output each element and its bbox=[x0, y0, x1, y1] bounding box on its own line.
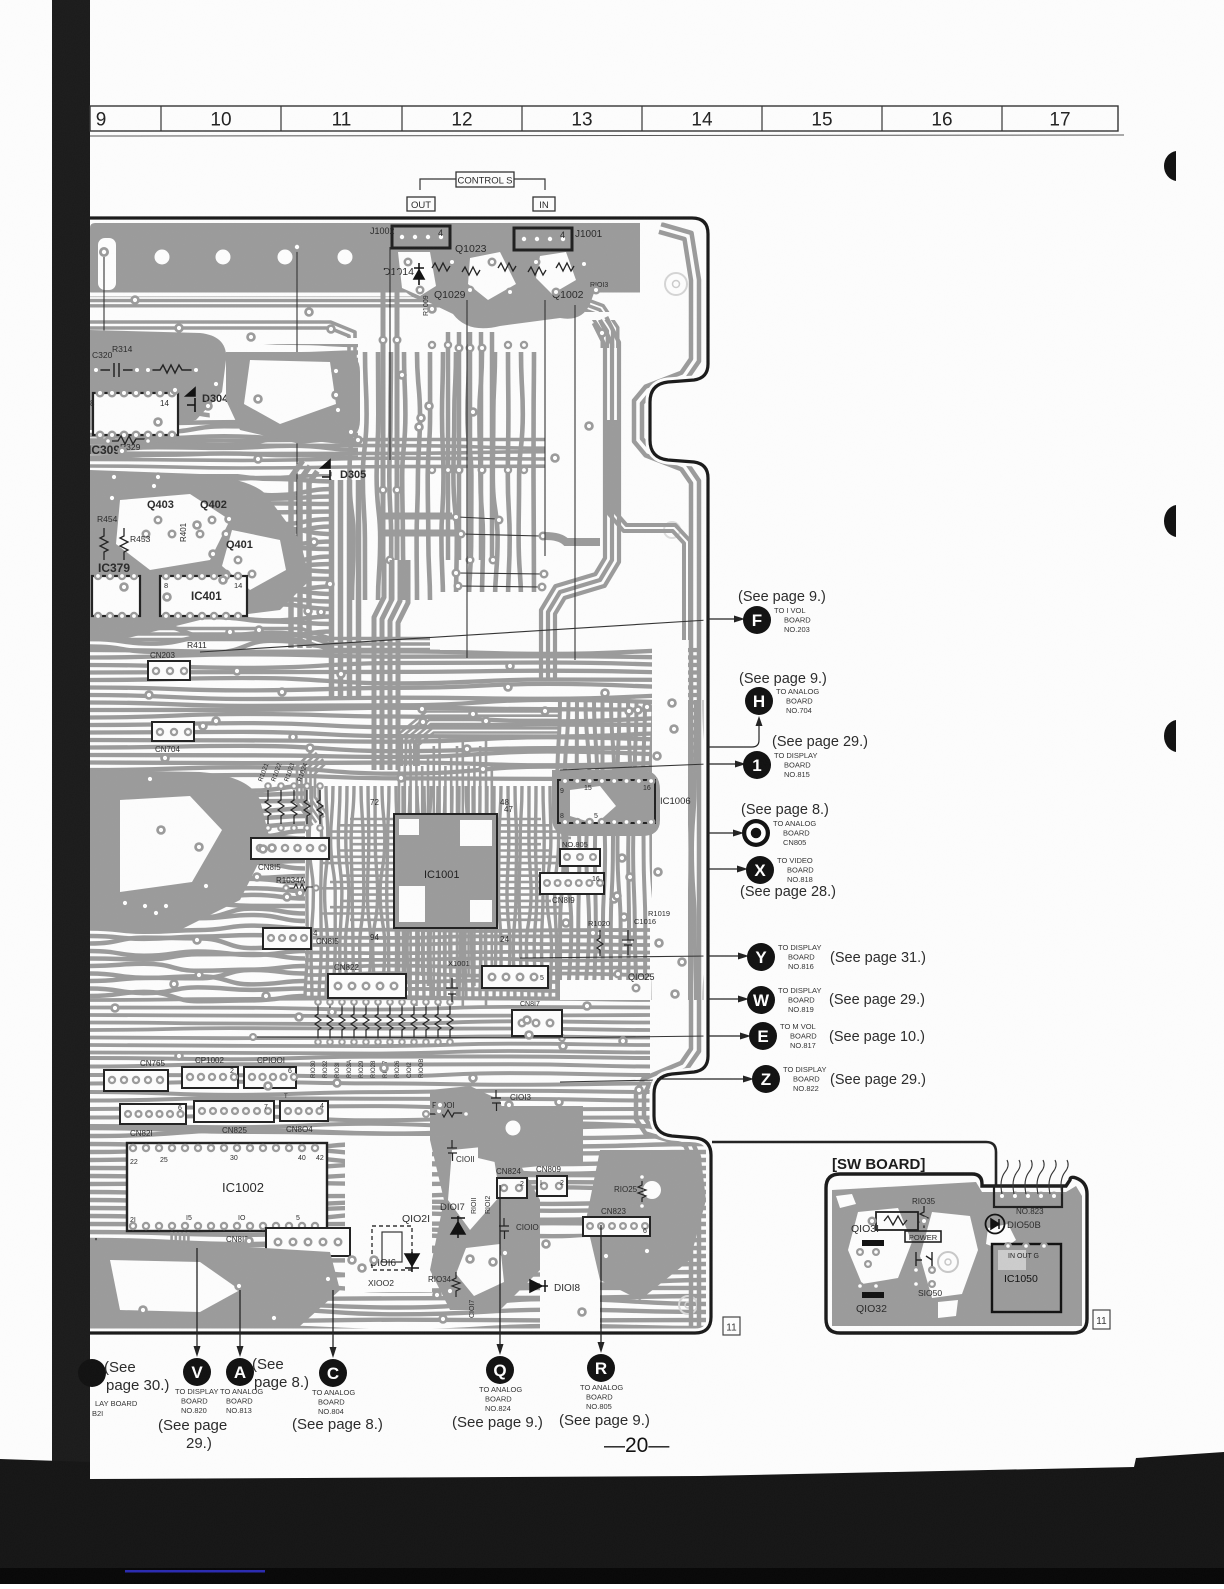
white lake bottom mid bbox=[345, 1136, 432, 1292]
white gap below band bbox=[90, 312, 640, 320]
vertical bus right of cluster bbox=[555, 317, 619, 680]
sheet mark 11 right bbox=[1093, 1310, 1110, 1329]
IC401 bbox=[160, 576, 247, 616]
bus under top band 2 bbox=[90, 322, 355, 420]
CN804 connector bbox=[280, 1101, 328, 1121]
connector callout F bbox=[743, 606, 771, 634]
trace stub right mid bbox=[545, 536, 600, 542]
white lake right margin bbox=[652, 470, 688, 1050]
blue scan artifact line bbox=[125, 1570, 265, 1573]
wire across to Y bbox=[520, 956, 708, 958]
CN203 connector bbox=[148, 661, 190, 680]
L trace to edge mid bbox=[615, 420, 690, 640]
IC1001 left connector CN815 bbox=[251, 838, 329, 859]
CN817 connector bbox=[512, 1010, 562, 1036]
diode D1050B bbox=[986, 1215, 1005, 1234]
trace stubs with jumper wires bbox=[380, 513, 452, 520]
bus under top band bbox=[90, 290, 618, 420]
wire across to 1 bbox=[560, 764, 708, 770]
wire across to F bbox=[200, 620, 708, 652]
CN824 connector bbox=[497, 1178, 527, 1198]
vertical traces top mid bbox=[395, 270, 400, 560]
left fan bundle bbox=[297, 750, 314, 826]
copper carpet Q4 region bbox=[90, 474, 332, 479]
diode D305 bbox=[321, 460, 330, 484]
diode D304 bbox=[186, 388, 195, 412]
scattered pads field bbox=[353, 435, 363, 445]
CP1002 connector bbox=[182, 1067, 238, 1088]
white lake below cluster bbox=[540, 560, 600, 648]
scan noise overlay bbox=[0, 0, 1, 1]
connector callout O bbox=[742, 819, 770, 847]
white lake mid1 bbox=[120, 794, 222, 892]
right edge vertical traces bbox=[642, 224, 699, 1330]
binding mark 2 bbox=[1164, 505, 1176, 537]
center bottom copper 2 bbox=[586, 1150, 706, 1300]
IC1050 bbox=[992, 1244, 1061, 1312]
white lake right r1 bbox=[560, 980, 650, 1000]
CN822 connector bbox=[328, 974, 406, 998]
cluster small symbols bbox=[432, 263, 450, 271]
wire row 1037 bbox=[255, 1037, 560, 1038]
binding mark 3 bbox=[1164, 720, 1176, 752]
cluster white gaps bbox=[398, 252, 436, 296]
connector J1002 bbox=[392, 226, 450, 248]
IC1001 pin fans bbox=[398, 766, 401, 813]
white lake mid2 bbox=[440, 592, 560, 650]
IC1006 outline bbox=[558, 780, 655, 823]
center bottom copper bbox=[430, 1086, 540, 1310]
RIOOI copper slab bbox=[478, 1106, 583, 1168]
center vertical bus 2 bbox=[374, 560, 384, 770]
connector callout C bbox=[332, 1290, 334, 1350]
copper carpet IC1001 halo bbox=[305, 786, 308, 1000]
vertical drop pads bbox=[455, 344, 464, 353]
binding mark 1 bbox=[1164, 151, 1176, 181]
CN765 connector bbox=[104, 1070, 168, 1091]
white lake top right large bbox=[545, 348, 700, 560]
connector callout R bbox=[600, 1225, 602, 1345]
R1036 box bbox=[876, 1212, 918, 1230]
wire main board to SW board bbox=[712, 1142, 996, 1186]
white lake q4b bbox=[222, 528, 288, 592]
CN813 connector bbox=[266, 1228, 350, 1256]
screw hole top right bbox=[665, 273, 687, 295]
connector callout X bbox=[746, 856, 774, 884]
connector callout Y bbox=[747, 943, 775, 971]
connector callout 1 bbox=[743, 751, 771, 779]
band bottom separator bbox=[90, 293, 640, 297]
CN819 connector bbox=[540, 873, 604, 894]
CN704 connector bbox=[152, 722, 194, 741]
jumper wire 3 bbox=[574, 305, 576, 660]
white lake left1 bbox=[206, 354, 292, 420]
connector callout E bbox=[749, 1022, 777, 1050]
white gap row470 bbox=[90, 470, 330, 474]
copper carpet mid band bbox=[90, 650, 700, 654]
white lake bottom right bbox=[540, 1236, 600, 1330]
bus above CN203 bbox=[90, 629, 430, 639]
board edge white margin bbox=[90, 218, 711, 1333]
IC309 outline bbox=[93, 393, 178, 435]
copper carpet row440 bbox=[90, 440, 700, 441]
copper carpet left mid bbox=[90, 340, 358, 346]
vertical bus from connectors to mid bbox=[490, 332, 495, 560]
CN821 connector bbox=[120, 1104, 186, 1124]
switch S1050 bbox=[916, 1252, 932, 1268]
connector callout W bbox=[747, 986, 775, 1014]
SW board copper bbox=[832, 1182, 1082, 1326]
CN815 connector 2 bbox=[263, 928, 311, 949]
top copper band bbox=[90, 223, 640, 296]
connector callout H bbox=[745, 687, 773, 715]
IC1001 body bbox=[394, 814, 497, 928]
main PCB board outline bbox=[90, 218, 711, 1333]
IC1006 region copper bbox=[552, 770, 660, 836]
bottom left copper fill bbox=[90, 1240, 340, 1326]
resistor column row bbox=[315, 1004, 321, 1040]
jumper wire 2 bbox=[544, 300, 546, 556]
CN809 connector bbox=[537, 1176, 567, 1196]
mid blob right of IC309 bbox=[226, 352, 360, 444]
CN823 connector bbox=[583, 1217, 650, 1236]
page gutter black strip bbox=[52, 0, 90, 1584]
IC1001 top fan bus bbox=[398, 712, 561, 767]
connector J1001 bbox=[514, 228, 572, 250]
copper carpet bottom bbox=[90, 1123, 706, 1133]
connector mid CN8x bbox=[482, 966, 548, 988]
wire across to Z bbox=[560, 1079, 710, 1082]
bottom black scan area bbox=[0, 1452, 1224, 1584]
left blob Q4xx bbox=[90, 470, 310, 640]
connector callout A bbox=[239, 1290, 241, 1349]
blob mid left bbox=[90, 770, 270, 930]
screw hole bottom bbox=[679, 1296, 697, 1314]
copper carpet row1060 bbox=[90, 1057, 650, 1060]
SW board outline bbox=[826, 1174, 1087, 1333]
wire across to E bbox=[540, 1036, 708, 1038]
CONTROL S label bbox=[456, 172, 514, 187]
board outline stroke bbox=[90, 218, 711, 1333]
band mount holes bbox=[155, 250, 170, 265]
copper carpet lower band bbox=[90, 998, 650, 1000]
IN label bbox=[533, 197, 555, 211]
sheet mark 11 left bbox=[723, 1317, 740, 1335]
clipped callout left bbox=[78, 1359, 106, 1387]
SW board white lakes bbox=[848, 1208, 912, 1284]
pad drop wires bbox=[103, 257, 105, 340]
jumper wire 4 bbox=[389, 247, 391, 460]
resistor ladder R10xx top bbox=[265, 790, 271, 824]
NO.805 connector bbox=[560, 849, 600, 866]
connector wires into NO.823 bbox=[1001, 1160, 1008, 1194]
POWER label bbox=[905, 1231, 941, 1242]
connector callout V bbox=[196, 1248, 198, 1349]
connector callout Z bbox=[752, 1065, 780, 1093]
CP1001 connector bbox=[244, 1067, 296, 1088]
X1002 crystal dashed bbox=[372, 1226, 412, 1270]
connector NO.823 bbox=[994, 1186, 1062, 1207]
connector callout Q bbox=[499, 1185, 501, 1347]
copper carpet left col bbox=[90, 781, 305, 790]
IC1002 outline bbox=[127, 1143, 327, 1231]
copper carpet center upper bbox=[349, 352, 353, 600]
center vertical bus bbox=[291, 461, 303, 648]
CN825 connector bbox=[194, 1101, 274, 1122]
copper carpet right mid bbox=[557, 700, 563, 1000]
ruler scale 9-17 bbox=[90, 106, 1118, 131]
screw hole bbox=[938, 1252, 958, 1272]
copper carpet row930 bbox=[305, 930, 650, 931]
white lake q4 bbox=[114, 492, 232, 572]
jumper wire 1 bbox=[466, 300, 468, 658]
trace fan below IC1002 bbox=[188, 1232, 330, 1268]
top cluster copper bbox=[383, 223, 608, 328]
screw hole mid right bbox=[664, 522, 680, 538]
OUT label bbox=[407, 197, 435, 211]
left blob upper bbox=[90, 330, 226, 430]
